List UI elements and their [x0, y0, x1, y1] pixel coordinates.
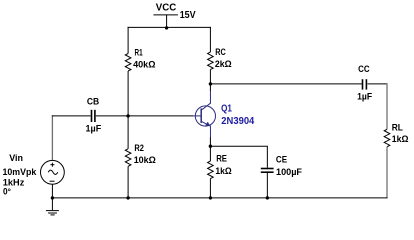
node: emitter junction dot [209, 145, 212, 148]
wire: divider column bottom [127, 166, 129, 198]
wire: CB to base junction and transistor base [96, 115, 193, 117]
resistor RE [208, 161, 214, 178]
wire: input corner to CB [51, 115, 53, 160]
wire: RE bottom to ground rail [209, 179, 211, 198]
svg-text:RC: RC [215, 47, 226, 57]
svg-text:2kΩ: 2kΩ [215, 59, 232, 69]
svg-text:CE: CE [276, 154, 287, 164]
svg-text:R1: R1 [135, 47, 143, 57]
svg-text:0°: 0° [3, 187, 11, 197]
transistor Q1 [193, 103, 216, 126]
capacitor CE [261, 169, 274, 173]
svg-text:15V: 15V [180, 10, 196, 21]
svg-text:10kΩ: 10kΩ [134, 155, 156, 165]
capacitor CB [92, 110, 95, 122]
svg-text:VCC: VCC [156, 2, 177, 13]
wire: divider column top (R1 branch) [127, 27, 129, 54]
capacitor CC [363, 79, 367, 89]
svg-text:10mVpk: 10mVpk [3, 167, 38, 177]
svg-text:RE: RE [216, 154, 227, 164]
source Vin [41, 160, 65, 184]
svg-text:40kΩ: 40kΩ [133, 60, 155, 70]
node: R2 ground dot [126, 196, 129, 199]
wire: emitter down to RE junction [209, 126, 211, 138]
svg-text:RL: RL [392, 122, 404, 132]
wire: RL bottom to ground rail [386, 147, 388, 198]
svg-text:1µF: 1µF [357, 92, 372, 102]
wire: CE bottom to ground rail [266, 173, 268, 198]
resistor RC [208, 52, 214, 69]
VCC power symbol [153, 15, 178, 28]
wire: divider column middle [127, 71, 129, 149]
svg-text:Q1: Q1 [221, 103, 232, 114]
resistor R1 [125, 54, 131, 71]
ground [46, 198, 59, 215]
node: collector junction dot [209, 82, 212, 85]
svg-text:Vin: Vin [9, 153, 23, 163]
node: Vin ground dot [51, 196, 54, 199]
wire: collector rail to CC [210, 83, 362, 85]
wire: emitter rail to CE [210, 146, 267, 168]
wire: RC column top [209, 27, 211, 52]
wire: CC to RL corner [367, 83, 387, 85]
svg-text:1kΩ: 1kΩ [215, 166, 231, 176]
svg-text:CB: CB [87, 96, 100, 106]
svg-text:R2: R2 [134, 143, 144, 153]
node: CE ground dot [266, 196, 269, 199]
resistor R2 [125, 149, 131, 166]
wire: RC to collector [209, 70, 211, 92]
svg-text:CC: CC [358, 64, 370, 74]
svg-text:1µF: 1µF [86, 124, 102, 134]
wire: Vin bottom to ground rail [51, 184, 53, 198]
svg-text:1kΩ: 1kΩ [392, 134, 409, 144]
svg-text:2N3904: 2N3904 [221, 116, 254, 127]
node: VCC junction dot [165, 26, 168, 29]
node: base junction dot [126, 114, 129, 117]
resistor RL [384, 129, 390, 146]
wire: top rail [128, 26, 211, 28]
node: RE ground dot [209, 196, 212, 199]
svg-text:100µF: 100µF [276, 167, 303, 177]
